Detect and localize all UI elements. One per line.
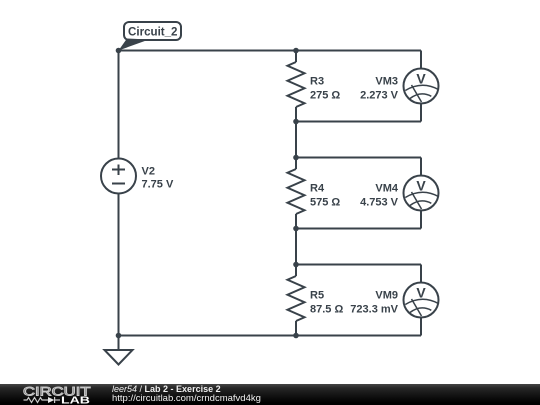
resistor R5	[288, 276, 305, 321]
resistor R4	[288, 169, 305, 214]
node R4 bottom	[293, 226, 299, 232]
svg-text:R4: R4	[310, 183, 325, 195]
wire middle rail row1 lower lead	[295, 107, 297, 122]
wire VM4 right lower	[420, 211, 422, 229]
wire top rail	[119, 50, 422, 52]
wire VM3 right upper	[420, 51, 422, 69]
svg-text:575 Ω: 575 Ω	[310, 197, 340, 209]
voltmeter VM9	[404, 283, 439, 318]
svg-text:87.5 Ω: 87.5 Ω	[310, 304, 343, 316]
wire middle rail row3 lower lead	[295, 321, 297, 336]
logo resistor squiggle	[24, 398, 49, 403]
ground	[105, 336, 133, 365]
wire left rail upper	[118, 51, 120, 159]
svg-text:LAB: LAB	[61, 396, 90, 405]
svg-text:R3: R3	[310, 76, 324, 88]
node top-left	[116, 48, 122, 54]
svg-text:VM3: VM3	[375, 76, 398, 88]
svg-text:7.75 V: 7.75 V	[142, 179, 174, 191]
node R4 top	[293, 155, 299, 161]
wire VM4 right upper	[420, 158, 422, 176]
wire middle rail row1 upper lead	[295, 51, 297, 63]
wire VM3 right lower	[420, 104, 422, 122]
wire left rail lower	[118, 194, 120, 336]
node bottom-left	[116, 333, 122, 339]
svg-text:VM4: VM4	[375, 183, 399, 195]
wire bottom rail	[119, 335, 422, 337]
wire VM9 right lower	[420, 318, 422, 336]
node R5 top	[293, 262, 299, 268]
wire VM9 right upper	[420, 265, 422, 283]
logo diode	[48, 397, 60, 403]
node R3 bottom	[293, 119, 299, 125]
footer text	[111, 383, 113, 385]
voltmeter VM3	[404, 69, 439, 104]
svg-text:V: V	[416, 178, 426, 194]
svg-text:V2: V2	[142, 166, 155, 178]
wire VM4 loop bottom	[296, 228, 421, 230]
svg-text:R5: R5	[310, 290, 324, 302]
wire middle rail between row2 row3	[295, 229, 297, 277]
wire middle rail between row1 row2	[295, 122, 297, 170]
voltage source V2	[101, 159, 136, 194]
resistor R3	[288, 62, 305, 107]
wire VM9 loop top	[296, 264, 421, 266]
wire VM3 loop bottom	[296, 121, 421, 123]
svg-text:2.273 V: 2.273 V	[360, 90, 399, 102]
node top middle	[293, 48, 299, 54]
svg-text:723.3 mV: 723.3 mV	[350, 304, 398, 316]
svg-text:Circuit_2: Circuit_2	[128, 25, 178, 39]
svg-text:275 Ω: 275 Ω	[310, 90, 340, 102]
voltmeter VM4	[404, 176, 439, 211]
wire VM4 loop top	[296, 157, 421, 159]
wire middle rail row2 lower lead	[295, 214, 297, 229]
wire VM3 loop top	[296, 50, 421, 52]
label Circuit_2 callout box	[124, 22, 181, 40]
svg-text:VM9: VM9	[375, 290, 398, 302]
footer bar	[0, 384, 540, 405]
svg-text:4.753 V: 4.753 V	[360, 197, 399, 209]
wire VM9 loop bottom	[296, 335, 421, 337]
label Circuit_2 tail	[119, 39, 150, 51]
svg-text:V: V	[416, 71, 426, 87]
svg-text:V: V	[416, 285, 426, 301]
CircuitLab logo	[0, 384, 112, 405]
node R5 bottom	[293, 333, 299, 339]
